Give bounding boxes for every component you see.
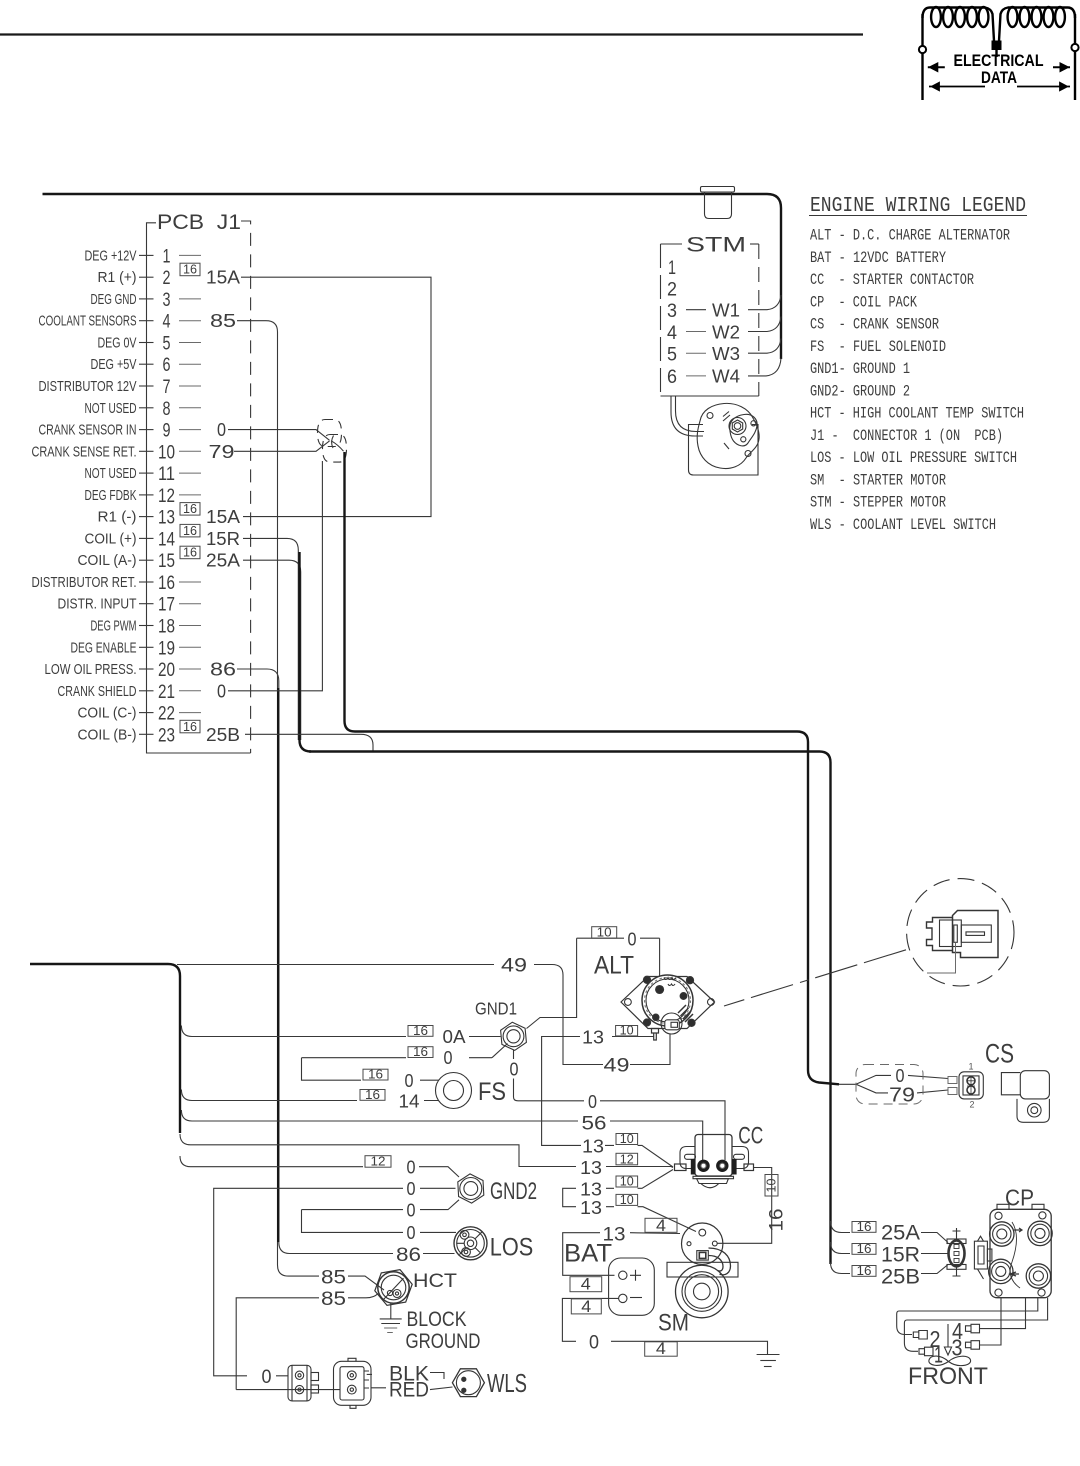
logo left lead wire [921, 14, 923, 100]
svg-text:3: 3 [667, 301, 677, 322]
svg-text:W4: W4 [712, 366, 740, 387]
pin 17 stub dash [179, 603, 201, 605]
svg-text:DATA: DATA [981, 69, 1017, 87]
wire GND1 stud drop 0 [514, 1050, 726, 1161]
label box 10 row3 [616, 1194, 638, 1205]
STM box left border [660, 244, 662, 396]
svg-text:4: 4 [656, 1216, 666, 1235]
wire heavy feed top to STM trunk [43, 194, 782, 359]
WLS connector 2 [334, 1358, 372, 1408]
wire crank sensor pair trunk [345, 452, 840, 1084]
svg-text:10: 10 [158, 442, 175, 463]
svg-text:DEG +12V: DEG +12V [85, 247, 137, 264]
wire 15R from pin14 [243, 538, 298, 740]
svg-text:CRANK SHIELD: CRANK SHIELD [58, 683, 137, 700]
svg-text:16: 16 [183, 545, 197, 560]
svg-text:13: 13 [580, 1197, 602, 1218]
wire CC right to SM solenoid with rotated labels [718, 1168, 772, 1244]
pin 6 stub dash [179, 363, 201, 365]
svg-text:CS: CS [985, 1039, 1014, 1069]
CP pigtail connector [974, 1236, 992, 1279]
svg-text:10: 10 [597, 926, 612, 940]
svg-text:79: 79 [209, 441, 235, 462]
stepper motor body hole bottom right [745, 451, 751, 457]
svg-text:NOT USED: NOT USED [85, 400, 137, 417]
pin 8 tick [139, 407, 154, 409]
svg-text:14: 14 [399, 1091, 420, 1112]
logo bottom right dimension arrow [1017, 83, 1070, 90]
svg-text:16: 16 [857, 1264, 872, 1278]
svg-text:10: 10 [620, 1024, 634, 1038]
svg-text:16: 16 [767, 1209, 788, 1232]
svg-text:1: 1 [968, 1062, 973, 1072]
svg-text:12: 12 [620, 1152, 634, 1166]
pin 15 crimp box 16 [180, 546, 200, 559]
svg-text:49: 49 [501, 956, 527, 977]
logo right lead wire [1074, 14, 1076, 100]
svg-text:0: 0 [628, 929, 637, 950]
svg-text:BAT: BAT [564, 1240, 612, 1268]
svg-text:R1 (-): R1 (-) [98, 509, 137, 526]
STM pin 4 dash [686, 331, 706, 333]
pin 16 tick [139, 581, 154, 583]
svg-text:BLOCK: BLOCK [407, 1307, 468, 1331]
svg-text:10: 10 [620, 1175, 634, 1189]
connector cap on top wire [701, 187, 735, 219]
svg-text:15R: 15R [206, 528, 240, 549]
pin 12 stub dash [179, 494, 201, 496]
pin 3 stub dash [179, 298, 201, 300]
svg-text:13: 13 [580, 1157, 602, 1178]
pin 18 stub dash [179, 625, 201, 627]
svg-text:0: 0 [589, 1332, 599, 1353]
logo bottom left dimension arrow [929, 83, 985, 90]
wire 15A loop pin2 to pin13 [241, 277, 431, 516]
svg-text:16: 16 [183, 719, 197, 734]
logo small right arrow [1053, 64, 1070, 71]
svg-text:FS - FUEL SOLENOID: FS - FUEL SOLENOID [810, 338, 946, 356]
STM pin 3 dash [686, 309, 706, 311]
pin 20 tick [139, 668, 154, 670]
svg-text:DEG ENABLE: DEG ENABLE [71, 639, 137, 656]
STM W2 tick and arc to trunk [748, 317, 781, 332]
front direction arrow [944, 1324, 951, 1355]
svg-text:STM: STM [686, 234, 746, 257]
pin 5 tick [139, 342, 154, 344]
svg-text:18: 18 [158, 617, 175, 638]
svg-text:0: 0 [217, 419, 226, 440]
block ground symbol [380, 1319, 402, 1333]
svg-text:25B: 25B [881, 1266, 920, 1289]
wire 15R-25A doubled trunk [300, 552, 312, 752]
PCB J1 connector [32, 211, 251, 753]
pin 21 tick [139, 690, 154, 692]
CC starter contactor pictorial [675, 1135, 754, 1188]
label box 4 on SM row [645, 1218, 677, 1232]
svg-text:16: 16 [857, 1220, 872, 1234]
STM W1 tick and arc to trunk [748, 295, 781, 310]
svg-text:2: 2 [667, 280, 677, 301]
svg-text:DISTRIBUTOR 12V: DISTRIBUTOR 12V [39, 378, 137, 395]
stepper motor shaft hex and circles [729, 418, 746, 435]
wire 49 from feed to ALT [177, 965, 670, 1065]
CS 2-pin connector pictorial [948, 1072, 983, 1099]
svg-text:10: 10 [620, 1132, 634, 1146]
svg-text:20: 20 [158, 660, 175, 681]
svg-text:7: 7 [163, 377, 171, 398]
CP row 25B [852, 1266, 876, 1277]
svg-text:0: 0 [407, 1222, 416, 1243]
logo small left arrow [928, 64, 945, 71]
pin 13 tick [139, 516, 154, 518]
svg-text:PCB J1: PCB J1 [157, 211, 241, 234]
CS crank sensor pictorial [1001, 1071, 1049, 1123]
label box 12 on 13-12 row [616, 1153, 638, 1165]
STM box top-right dash [750, 243, 759, 245]
svg-text:LOS - LOW OIL PRESSURE SWITCH: LOS - LOW OIL PRESSURE SWITCH [810, 449, 1017, 467]
label box 4 on ground run [645, 1342, 678, 1356]
pin 19 tick [139, 646, 154, 648]
wire 86 from pin20 down [237, 669, 290, 1254]
pin 18 tick [139, 625, 154, 627]
pin 7 stub dash [179, 385, 201, 387]
svg-text:6: 6 [667, 367, 677, 388]
wire 25B peel to CP [831, 1263, 851, 1274]
pin 1 tick [139, 254, 154, 256]
svg-text:2: 2 [969, 1100, 974, 1110]
svg-text:10: 10 [765, 1178, 779, 1192]
svg-text:16: 16 [183, 262, 197, 277]
pin 7 tick [139, 385, 154, 387]
pin 9 stub dash [179, 429, 201, 431]
svg-text:J1 - CONNECTOR 1 (ON PCB): J1 - CONNECTOR 1 (ON PCB) [810, 427, 1003, 445]
pin 1 stub dash [179, 254, 201, 256]
pin 21 stub dash [179, 690, 201, 692]
svg-text:DISTRIBUTOR RET.: DISTRIBUTOR RET. [32, 574, 137, 591]
label box 10 row2 [616, 1176, 638, 1187]
label box 16 on 0A row [408, 1026, 433, 1037]
svg-text:CC: CC [738, 1122, 763, 1149]
svg-text:12: 12 [371, 1155, 386, 1169]
svg-text:86: 86 [210, 659, 236, 680]
svg-text:FS: FS [478, 1078, 506, 1106]
detail balloon dashed circle [907, 879, 1014, 986]
pin 11 tick [139, 472, 154, 474]
CP 3-pin connector [947, 1228, 966, 1276]
svg-text:CRANK SENSE RET.: CRANK SENSE RET. [32, 443, 137, 460]
wire 85-86 doubled trunk [277, 688, 279, 1242]
WLS coolant level switch symbol [452, 1369, 484, 1397]
middle wires [30, 277, 948, 1389]
svg-text:GND2: GND2 [490, 1178, 537, 1205]
svg-text:LOW OIL PRESS.: LOW OIL PRESS. [45, 661, 137, 678]
wire BAT minus to starter ground [562, 1298, 767, 1354]
svg-text:RED: RED [389, 1377, 429, 1401]
CP row 15R [852, 1244, 876, 1255]
svg-text:0: 0 [407, 1178, 416, 1199]
svg-text:GND1- GROUND 1: GND1- GROUND 1 [810, 360, 910, 378]
wire 25B from pin23 [245, 734, 373, 751]
wire feed end branch to 13-12 row [180, 1134, 673, 1168]
svg-text:DISTR. INPUT: DISTR. INPUT [58, 596, 137, 613]
svg-text:10: 10 [620, 1193, 634, 1207]
svg-text:14: 14 [158, 529, 175, 550]
svg-text:0: 0 [588, 1091, 597, 1112]
stepper motor mount hole [707, 413, 713, 419]
J1 right bracket dashed [241, 221, 251, 753]
svg-text:NOT USED: NOT USED [85, 465, 137, 482]
label box 4 on BAT minus [571, 1299, 601, 1314]
label box 12 on GND2 row [365, 1156, 391, 1168]
logo left coil L1 [923, 8, 995, 42]
svg-text:SM - STARTER MOTOR: SM - STARTER MOTOR [810, 471, 946, 489]
fan bowtie symbol [929, 1356, 971, 1366]
wire 79 pin10 to shield connector [234, 441, 330, 451]
svg-text:16: 16 [158, 573, 175, 594]
svg-text:COIL (A-): COIL (A-) [78, 552, 137, 569]
svg-text:LOS: LOS [490, 1234, 534, 1262]
svg-text:DEG +5V: DEG +5V [91, 356, 137, 373]
wire 13-4 row to battery plus [563, 1233, 680, 1276]
STM box bottom border [661, 395, 759, 397]
pin 8 stub dash [179, 407, 201, 409]
svg-text:49: 49 [604, 1056, 630, 1077]
svg-text:ELECTRICAL: ELECTRICAL [954, 52, 1044, 70]
shield connector barrel 1 dashed [318, 420, 342, 447]
CP plug wire 4 [980, 1298, 1026, 1329]
svg-text:79: 79 [889, 1085, 915, 1107]
svg-text:15: 15 [158, 551, 175, 572]
svg-text:DEG GND: DEG GND [91, 291, 137, 308]
wire 86 row to LOS [290, 1253, 455, 1255]
wire 85 row2 from WLS [236, 1294, 378, 1390]
pin 10 stub dash [179, 450, 201, 452]
stepper motor shaft plate hole right [751, 421, 756, 426]
pin 2 tick [139, 276, 154, 278]
pin 19 stub dash [179, 646, 201, 648]
svg-text:GND1: GND1 [475, 999, 517, 1019]
stepper motor tick marks [723, 412, 730, 422]
wire 25A from pin15 [243, 560, 301, 740]
CP row 25A [852, 1222, 876, 1233]
pin 4 tick [139, 320, 154, 322]
pin 13 crimp box 16 [180, 503, 200, 515]
pin 22 tick [139, 712, 154, 714]
legend title underline [809, 215, 1027, 217]
spark terminal 1 [919, 1347, 933, 1356]
svg-text:GROUND: GROUND [406, 1329, 481, 1353]
wire 15R peel to CP [831, 1242, 851, 1254]
svg-text:R1 (+): R1 (+) [98, 269, 137, 286]
wire 16-0 row B to GND1 [302, 1058, 493, 1081]
svg-text:13: 13 [158, 508, 175, 529]
svg-text:56: 56 [582, 1114, 607, 1135]
svg-text:CC - STARTER CONTACTOR: CC - STARTER CONTACTOR [810, 271, 974, 289]
CP plug wire 2 [897, 1298, 1038, 1335]
logo right coil L2 [999, 8, 1075, 42]
detail balloon leader line [724, 950, 906, 1006]
svg-text:COIL (+): COIL (+) [85, 530, 137, 547]
svg-text:16: 16 [183, 523, 197, 538]
CP plug wire 1 [904, 1298, 1047, 1352]
GND1 stud hex nut [501, 1022, 527, 1050]
svg-text:4: 4 [667, 323, 677, 344]
GND2 0 loop row2 to WLS [214, 1188, 456, 1376]
svg-text:W3: W3 [712, 343, 740, 364]
svg-text:0: 0 [510, 1059, 519, 1080]
stepper motor shaft plate hole bottom [741, 437, 746, 442]
STM pin 5 dash [686, 352, 706, 354]
svg-text:4: 4 [656, 1339, 666, 1358]
svg-text:25A: 25A [206, 550, 241, 571]
pin 23 tick [139, 733, 154, 735]
pin 4 stub dash [179, 320, 201, 322]
label box 10 rotated [765, 1175, 778, 1197]
STM box top-left dash [661, 243, 683, 245]
svg-text:0A: 0A [443, 1026, 467, 1047]
svg-text:0: 0 [262, 1367, 272, 1388]
pin 20 stub dash [179, 668, 201, 670]
svg-text:COIL (C-): COIL (C-) [78, 705, 137, 722]
svg-text:CP - COIL PACK: CP - COIL PACK [810, 293, 918, 311]
components bottom [288, 879, 1052, 1409]
pin 17 tick [139, 603, 154, 605]
svg-text:85: 85 [321, 1268, 346, 1289]
wire coil bundle horizontal [309, 752, 831, 1265]
STM box right border dashed [758, 244, 760, 396]
legend [809, 194, 1027, 534]
GND2 stud hex nut [458, 1174, 484, 1203]
svg-text:0: 0 [896, 1065, 905, 1086]
svg-text:SM: SM [658, 1310, 689, 1337]
svg-text:STM - STEPPER MOTOR: STM - STEPPER MOTOR [810, 494, 946, 512]
wire CS pair split [839, 1075, 948, 1093]
CP plug wire 3 [979, 1298, 1001, 1345]
balloon connector pictorial [927, 911, 999, 974]
wire 25A peel to CP [831, 1221, 851, 1233]
pin 14 tick [139, 537, 154, 539]
pin 11 stub dash [179, 472, 201, 474]
logo center tap node [992, 41, 1002, 51]
STM W3 tick and arc to trunk [748, 339, 781, 354]
pin 23 crimp box 16 [180, 720, 200, 733]
wire main feed heavy left [30, 964, 180, 1133]
stm [43, 187, 782, 476]
GND1 diagonal from ALT drop [492, 1044, 508, 1058]
HCT high coolant temp switch symbol [375, 1270, 412, 1306]
top rule [0, 33, 863, 35]
pin 12 tick [139, 494, 154, 496]
label box 10 on ALT 13 row [616, 1026, 638, 1036]
stepper motor body blob [697, 403, 759, 468]
svg-text:DEG PWM: DEG PWM [91, 618, 137, 635]
STM W4 tick and trunk end curve [748, 358, 781, 376]
svg-text:8: 8 [163, 399, 171, 420]
pin 9 tick [139, 429, 154, 431]
svg-text:13: 13 [582, 1027, 604, 1048]
wire feed branch 56 row to CC [181, 1110, 702, 1160]
svg-text:3: 3 [163, 290, 171, 311]
pin 6 tick [139, 363, 154, 365]
wire ALT 0 to GND1 [527, 938, 660, 1028]
svg-text:5: 5 [667, 345, 677, 366]
svg-text:85: 85 [321, 1289, 346, 1310]
label box 10 on CC row1 [616, 1134, 638, 1145]
WLS connector 1 [288, 1365, 319, 1401]
svg-text:9: 9 [163, 421, 171, 442]
svg-text:BAT - 12VDC BATTERY: BAT - 12VDC BATTERY [810, 249, 947, 267]
pin 16 stub dash [179, 581, 201, 583]
svg-text:HCT: HCT [413, 1270, 457, 1292]
wire feed branch 0A row [181, 1026, 500, 1037]
SM starter motor pictorial [667, 1223, 738, 1318]
svg-text:0: 0 [407, 1157, 416, 1178]
svg-text:25B: 25B [206, 724, 240, 745]
label box 4 on BAT plus [570, 1277, 602, 1292]
svg-text:25A: 25A [881, 1222, 920, 1245]
logo left terminal circle [919, 46, 926, 53]
BLK wire jog [367, 1373, 444, 1380]
svg-text:16: 16 [413, 1024, 428, 1038]
svg-text:17: 17 [158, 595, 175, 616]
svg-text:ENGINE WIRING LEGEND: ENGINE WIRING LEGEND [810, 194, 1026, 218]
svg-text:16: 16 [413, 1045, 428, 1059]
BAT rows 13-10 pair [563, 1170, 696, 1232]
starter ground symbol [757, 1355, 780, 1367]
svg-text:16: 16 [183, 501, 197, 516]
pin 5 stub dash [179, 342, 201, 344]
svg-text:DEG FDBK: DEG FDBK [85, 487, 137, 504]
svg-text:23: 23 [158, 725, 175, 746]
label box 10 on ALT 0 wire [592, 927, 617, 939]
pin 2 crimp box 16 [180, 263, 200, 276]
svg-text:5: 5 [163, 334, 171, 355]
svg-text:6: 6 [163, 355, 171, 376]
label box 16 on 14 row [360, 1090, 385, 1101]
wire feed branch 14 row to FS [181, 1090, 439, 1101]
svg-text:W2: W2 [712, 321, 740, 342]
svg-text:16: 16 [365, 1088, 380, 1102]
svg-text:1: 1 [668, 258, 676, 279]
svg-text:FRONT: FRONT [908, 1363, 988, 1390]
svg-text:4: 4 [581, 1297, 591, 1316]
J1 left bracket [147, 223, 251, 753]
stepper motor lead wire double arc [671, 396, 704, 436]
svg-text:DEG 0V: DEG 0V [98, 335, 137, 352]
wire 85 row1 to HCT [289, 1276, 385, 1290]
pin 22 stub dash [179, 712, 201, 714]
shield connector twist [331, 436, 344, 452]
ELECTRICAL DATA logo [919, 7, 1079, 100]
svg-text:WLS - COOLANT LEVEL SWITCH: WLS - COOLANT LEVEL SWITCH [810, 516, 996, 534]
svg-text:19: 19 [158, 638, 175, 659]
svg-text:2: 2 [163, 268, 171, 289]
svg-text:85: 85 [210, 310, 236, 331]
svg-text:COOLANT SENSORS: COOLANT SENSORS [39, 313, 137, 330]
svg-text:4: 4 [163, 312, 171, 333]
STM pin 6 dash [686, 375, 706, 377]
stepper motor shaft plate [730, 414, 757, 446]
wire shield drain to pin21 [228, 461, 322, 691]
svg-text:ALT - D.C. CHARGE ALTERNATOR: ALT - D.C. CHARGE ALTERNATOR [810, 227, 1010, 245]
GND2 row3 loop [302, 1200, 460, 1233]
svg-text:16: 16 [368, 1068, 383, 1082]
LOS low oil pressure switch symbol [454, 1227, 487, 1260]
svg-text:0: 0 [444, 1047, 453, 1068]
spark terminal 3 [966, 1341, 980, 1350]
CS dashed connector box [856, 1065, 923, 1105]
spark terminal 4 [966, 1324, 980, 1333]
